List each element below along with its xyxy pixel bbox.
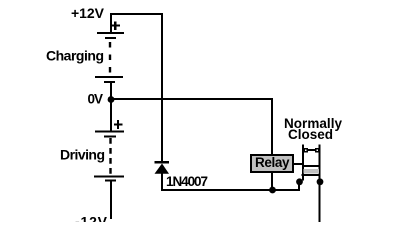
svg-text:-12V: -12V — [75, 214, 108, 223]
svg-text:Driving: Driving — [60, 147, 105, 163]
svg-text:0V: 0V — [88, 92, 104, 107]
svg-text:1N4007: 1N4007 — [166, 174, 208, 189]
svg-text:Charging: Charging — [46, 48, 104, 64]
svg-text:Closed: Closed — [288, 127, 333, 142]
svg-text:+12V: +12V — [71, 5, 105, 21]
svg-text:Relay: Relay — [255, 155, 290, 170]
